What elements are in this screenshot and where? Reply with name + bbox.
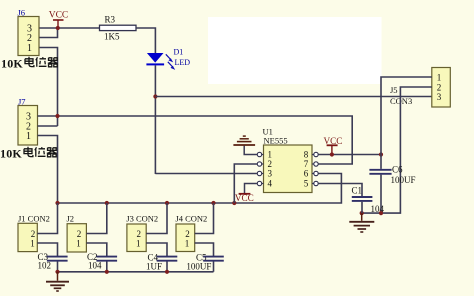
wire J6 pin2 (40, 28, 58, 38)
svg-text:6: 6 (304, 169, 309, 179)
resistor R3 (100, 15, 137, 42)
capacitor C4 (146, 252, 177, 272)
svg-text:2: 2 (437, 83, 442, 93)
wire J1 pin2 up to bus (37, 203, 57, 234)
svg-text:1: 1 (27, 43, 32, 54)
connector J6 (18, 8, 40, 56)
svg-text:3: 3 (268, 169, 273, 179)
connector J3 (126, 214, 158, 252)
junction gnd-C2 (105, 270, 109, 274)
junction VCC-pin8 (330, 152, 334, 156)
svg-text:VCC: VCC (235, 193, 254, 203)
diode D1 LED (146, 47, 190, 70)
pin 8 circle (312, 152, 318, 156)
svg-text:1: 1 (185, 239, 190, 249)
connector J2 (67, 214, 87, 252)
pin 3 circle (257, 171, 263, 175)
svg-text:1UF: 1UF (146, 262, 162, 272)
capacitor C2 (87, 252, 117, 272)
junction gnd-C3 (55, 270, 59, 274)
junction pin8-C6 (379, 152, 383, 156)
junction bus-J2 (105, 201, 109, 205)
svg-text:100UF: 100UF (391, 175, 416, 185)
svg-text:D1: D1 (174, 47, 184, 56)
ground (below C3) (46, 272, 69, 291)
svg-text:1: 1 (136, 239, 141, 249)
pin 6 circle (312, 171, 318, 175)
bottom ground bus wire (58, 271, 214, 273)
connector J7 (18, 97, 38, 146)
capacitor C5 (186, 252, 223, 272)
ground (earth above pin 1) (233, 136, 257, 154)
svg-text:1: 1 (26, 131, 31, 142)
junction C6 bottom (379, 211, 383, 215)
wire J4 pin2 up to bus (195, 203, 214, 234)
pin 7 circle (312, 162, 318, 166)
wire node to J5 pin3 (155, 96, 431, 98)
svg-text:2: 2 (31, 229, 36, 239)
pin 1 circle (257, 152, 263, 156)
wire J4 pin1 to C5 (195, 243, 214, 256)
junction C1 bottom (360, 211, 364, 215)
power VCC (below pin 4) (235, 184, 257, 204)
wire J3 pin2 up to bus (146, 203, 167, 234)
junction bus-pin2 (232, 201, 236, 205)
white overlay rectangle (208, 17, 382, 84)
connector J4 (175, 214, 207, 252)
svg-text:R3: R3 (105, 15, 116, 25)
svg-text:1: 1 (30, 239, 35, 249)
capacitor C3 (38, 252, 68, 272)
wire J6 pin3 to VCC junction to R3 (40, 27, 100, 29)
svg-text:J3 CON2: J3 CON2 (126, 214, 158, 224)
wire J2 pin1 to C2 (86, 243, 106, 256)
svg-text:C1: C1 (352, 185, 363, 195)
svg-text:C6: C6 (392, 164, 403, 174)
junction bus-J4 (211, 201, 215, 205)
wire J2 pin2 up to bus (86, 203, 106, 234)
svg-text:102: 102 (38, 260, 52, 270)
wire J1 pin1 to C3 (37, 243, 57, 256)
wire J3 pin1 to C4 (146, 243, 167, 256)
junction LED node (153, 94, 157, 98)
wire pin2 down to bus (234, 164, 257, 203)
svg-text:104: 104 (371, 204, 385, 214)
junction bus-J3 (165, 201, 169, 205)
svg-text:J1 CON2: J1 CON2 (18, 214, 50, 224)
wire J7 pin2 (38, 125, 58, 127)
svg-text:VCC: VCC (324, 136, 343, 146)
svg-text:J5: J5 (390, 85, 398, 95)
wire J5 pin2 down to bottom node (362, 87, 432, 213)
op-amp U1 NE555 (263, 127, 313, 193)
svg-text:J4 CON2: J4 CON2 (175, 214, 207, 224)
svg-text:2: 2 (77, 229, 82, 239)
power VCC (above pin 8) (324, 136, 343, 155)
junction VCC node (56, 26, 60, 30)
wire J6 pin1 down to J7 (40, 48, 58, 127)
connector J5 (390, 68, 450, 108)
wire pin8 to C6 column (318, 154, 381, 156)
junction gnd-C4 (165, 270, 169, 274)
svg-text:2: 2 (185, 229, 190, 239)
wire J7 pin1 down to bus (38, 136, 58, 204)
svg-text:1: 1 (76, 239, 81, 249)
junction J7 node (55, 114, 59, 118)
junction bus-left (55, 201, 59, 205)
svg-text:2: 2 (136, 229, 141, 239)
wire J7 pin3 long to U1 pin7 (38, 116, 353, 164)
svg-text:10K: 10K (0, 147, 22, 161)
svg-text:VCC: VCC (49, 11, 69, 21)
capacitor C6 (369, 155, 415, 214)
label 10K potentiometer (bottom) (0, 147, 57, 161)
wire pin3 to LED column (155, 173, 257, 175)
svg-text:NE555: NE555 (264, 135, 288, 145)
pin 2 circle (257, 162, 263, 166)
pin 5 circle (312, 181, 318, 185)
label 10K potentiometer (top) (1, 57, 58, 71)
wire J5 pin1 down to pin8 node (381, 77, 432, 155)
svg-text:1: 1 (437, 73, 442, 83)
svg-text:J2: J2 (67, 214, 75, 224)
svg-text:8: 8 (304, 150, 309, 160)
svg-text:5: 5 (304, 179, 309, 189)
svg-text:2: 2 (268, 159, 273, 169)
svg-text:1K5: 1K5 (104, 31, 120, 41)
svg-text:104: 104 (88, 260, 102, 270)
pin 4 circle (257, 181, 263, 185)
connector J1 (18, 214, 50, 252)
wire R3 to LED corner (136, 28, 155, 53)
wire LED cathode down to pin3 line (154, 65, 156, 174)
svg-text:3: 3 (437, 92, 442, 102)
power VCC (top left) (49, 11, 69, 28)
svg-text:1: 1 (268, 150, 273, 160)
svg-text:100UF: 100UF (186, 262, 211, 272)
capacitor C1 (318, 184, 385, 214)
ground (below C1) (349, 213, 374, 232)
main bus wire (trigger line) (58, 174, 342, 204)
svg-text:LED: LED (175, 58, 191, 67)
svg-text:10K: 10K (1, 57, 23, 71)
svg-text:4: 4 (268, 179, 273, 189)
svg-text:7: 7 (304, 159, 309, 169)
